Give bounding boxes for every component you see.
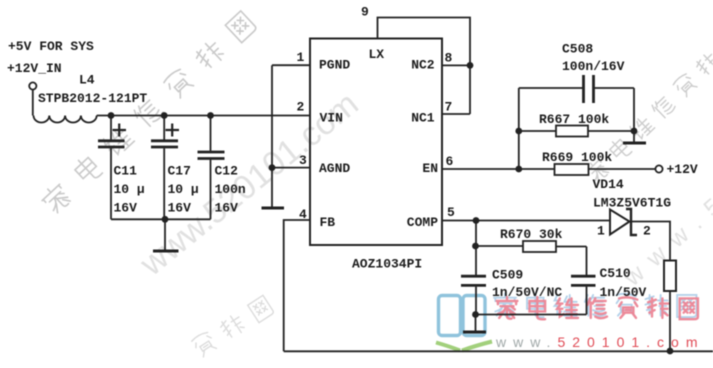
capacitor C17 xyxy=(151,116,199,220)
svg-text:STPB2012-121PT: STPB2012-121PT xyxy=(38,91,147,106)
svg-text:9: 9 xyxy=(361,5,369,20)
svg-text:R669 100k: R669 100k xyxy=(542,150,612,165)
node bottom right xyxy=(667,348,674,355)
svg-text:EN: EN xyxy=(422,161,438,176)
wire pin7 NC1 stub xyxy=(442,113,470,115)
svg-text:10 µ: 10 µ xyxy=(114,182,145,197)
wire pin8 NC2 stub xyxy=(442,64,470,66)
wire EN rail xyxy=(442,168,655,170)
svg-text:+5V FOR SYS: +5V FOR SYS xyxy=(8,39,94,54)
label +5V FOR SYS xyxy=(8,39,94,54)
svg-text:10 µ: 10 µ xyxy=(168,182,199,197)
node EN / R667 branch xyxy=(515,166,522,173)
node COMP xyxy=(473,217,480,224)
svg-text:2: 2 xyxy=(297,100,305,115)
capacitor C11 xyxy=(98,116,145,220)
wire COMP rail xyxy=(442,220,610,222)
svg-text:COMP: COMP xyxy=(407,215,438,230)
node R667 left xyxy=(515,128,522,135)
terminal +12V_IN xyxy=(29,82,36,89)
svg-text:LX: LX xyxy=(369,47,385,62)
svg-text:2: 2 xyxy=(643,224,651,239)
wire FB pin4 xyxy=(284,220,310,351)
svg-text:5: 5 xyxy=(447,205,455,220)
svg-text:1: 1 xyxy=(297,50,305,65)
pin 4 label xyxy=(299,207,307,222)
svg-text:VIN: VIN xyxy=(320,110,343,125)
resistor feedback (unlabeled) xyxy=(664,261,676,292)
wire C508 branch left vertical xyxy=(518,88,520,169)
svg-text:+12V: +12V xyxy=(667,162,698,177)
svg-text:100n: 100n xyxy=(215,182,246,197)
svg-text:6: 6 xyxy=(446,154,454,169)
ground PGND/AGND xyxy=(262,207,285,210)
wire zener cathode to corner xyxy=(631,222,670,261)
wire terminal to inductor xyxy=(32,90,34,116)
svg-text:NC1: NC1 xyxy=(411,110,435,125)
node AGND junction xyxy=(269,164,276,171)
svg-text:100n/16V: 100n/16V xyxy=(562,59,625,74)
wire COMP vertical branch xyxy=(475,221,477,315)
svg-text:R670 30k: R670 30k xyxy=(500,227,563,242)
pin 5 label xyxy=(447,205,455,220)
svg-text:AGND: AGND xyxy=(319,161,350,176)
resistor R669 100k xyxy=(542,150,612,175)
pin 1 label xyxy=(297,50,305,65)
resistor R667 100k xyxy=(519,112,634,137)
svg-text:8: 8 xyxy=(445,51,453,66)
pin 6 label xyxy=(446,154,454,169)
wire pin3 AGND stub xyxy=(272,167,310,169)
label +12V xyxy=(667,162,698,177)
svg-text:C12: C12 xyxy=(215,163,239,178)
svg-text:3: 3 xyxy=(299,153,307,168)
wire top rail to VIN xyxy=(97,115,310,117)
label LM3Z5V6T1G xyxy=(593,196,671,211)
wire PGND/AGND vertical xyxy=(271,65,273,206)
svg-text:L4: L4 xyxy=(79,73,95,88)
wire pin9 LX loop xyxy=(378,18,471,115)
svg-text:www.520101.com: www.520101.com xyxy=(495,334,705,350)
pin 7 label xyxy=(445,100,453,115)
svg-text:+12V_IN: +12V_IN xyxy=(7,61,62,76)
svg-text:NC2: NC2 xyxy=(411,58,435,73)
node pin8/pin9 xyxy=(467,62,474,69)
node R670 tee xyxy=(472,243,479,250)
node top rail / C17 xyxy=(161,112,168,119)
label VD14 xyxy=(593,177,624,192)
node C509 bottom xyxy=(472,311,479,318)
ground caps xyxy=(153,219,179,251)
colored site logo watermark (decorative) xyxy=(436,294,705,351)
svg-text:PGND: PGND xyxy=(319,58,350,73)
svg-text:C508: C508 xyxy=(562,42,593,57)
wire C509/C510 bottom link xyxy=(476,314,587,316)
capacitor C508 100n/16V xyxy=(519,42,634,104)
svg-text:1: 1 xyxy=(597,224,605,239)
wire resistor to bottom rail xyxy=(669,291,671,351)
node caps bottom xyxy=(162,216,169,223)
pin 8 label xyxy=(445,51,453,66)
svg-text:VD14: VD14 xyxy=(593,177,624,192)
svg-text:C509: C509 xyxy=(492,268,523,283)
svg-text:16V: 16V xyxy=(215,201,239,216)
pin 2 label xyxy=(297,100,305,115)
inductor L4 STPB2012-121PT xyxy=(34,73,148,123)
wire pin1 PGND stub xyxy=(272,64,310,66)
svg-text:C510: C510 xyxy=(600,266,631,281)
op-amp U1 AOZ1034PI body xyxy=(310,39,442,272)
resistor R670 30k xyxy=(476,227,587,252)
svg-text:1n/50V: 1n/50V xyxy=(600,285,647,300)
svg-text:AOZ1034PI: AOZ1034PI xyxy=(352,257,422,272)
svg-text:1n/50V/NC: 1n/50V/NC xyxy=(492,285,562,300)
svg-text:C17: C17 xyxy=(168,163,191,178)
node top rail / C11 xyxy=(108,112,115,119)
svg-text:16V: 16V xyxy=(168,201,192,216)
svg-text:C11: C11 xyxy=(114,163,138,178)
capacitor C509 1n/50V/NC xyxy=(461,268,562,301)
pin 9 label xyxy=(361,5,369,20)
wire caps bottom rail xyxy=(111,218,211,220)
ground C508/R667 xyxy=(623,131,646,143)
wire bottom rail xyxy=(284,350,713,352)
capacitor C12 xyxy=(198,116,246,220)
ground C509 xyxy=(463,315,486,333)
pin 3 label xyxy=(299,153,307,168)
diode VD14 zener xyxy=(597,209,651,239)
terminal +12V xyxy=(655,165,662,172)
capacitor C510 1n/50V xyxy=(571,247,647,315)
wire C508 right vertical xyxy=(633,88,635,131)
svg-text:FB: FB xyxy=(320,215,336,230)
node R667 right xyxy=(631,128,638,135)
svg-text:7: 7 xyxy=(445,100,453,115)
svg-text:16V: 16V xyxy=(114,201,138,216)
label +12V_IN xyxy=(7,61,62,76)
svg-text:R667 100k: R667 100k xyxy=(539,112,609,127)
node top rail / C12 xyxy=(207,112,214,119)
